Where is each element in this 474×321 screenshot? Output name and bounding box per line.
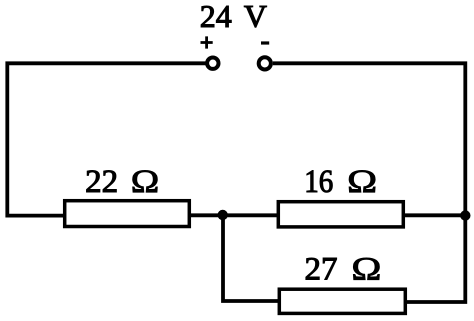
resistor R2 label 16 Ω	[304, 164, 377, 200]
junction node A (dot)	[218, 210, 228, 220]
terminal - (open circle)	[259, 57, 271, 69]
minus terminal label -	[261, 41, 269, 44]
wire R2 to right side	[405, 213, 466, 217]
wire junction down to R3	[223, 214, 279, 301]
svg-text:27: 27	[305, 252, 338, 288]
resistor R1 22 Ω (box)	[65, 201, 190, 227]
junction node B (dot)	[460, 210, 470, 220]
svg-text:16: 16	[304, 164, 333, 200]
terminal + (open circle)	[207, 58, 218, 69]
svg-text:Ω: Ω	[351, 252, 381, 288]
svg-text:V: V	[244, 0, 267, 34]
svg-text:22: 22	[85, 164, 118, 200]
resistor R1 label 22 Ω	[85, 164, 159, 200]
svg-text:Ω: Ω	[347, 164, 377, 200]
source value label 24 V	[200, 0, 267, 34]
resistor R2 16 Ω (box)	[278, 202, 403, 227]
wire R1 to R2	[191, 213, 279, 217]
plus terminal label +	[201, 36, 213, 48]
wire top-right from minus terminal down right side to R3	[273, 63, 466, 302]
resistor R3 label 27 Ω	[305, 252, 382, 288]
wire top-left to left side down to R1	[7, 63, 205, 215]
resistor R3 27 Ω (box)	[279, 289, 405, 313]
svg-text:24: 24	[200, 0, 232, 34]
svg-text:Ω: Ω	[131, 164, 160, 200]
